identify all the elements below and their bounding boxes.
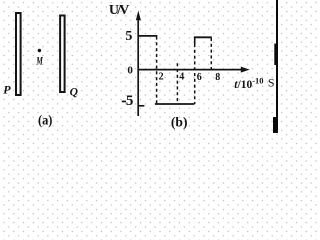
- svg-text:U/V: U/V: [109, 3, 129, 18]
- t axis arrowhead: [241, 67, 250, 73]
- plate Q (right capacitor plate): [60, 16, 65, 93]
- svg-text:0: 0: [127, 64, 133, 76]
- dashed transition at t=6: [194, 44, 196, 104]
- svg-text:5: 5: [125, 29, 132, 44]
- dashed transition at t=2: [156, 37, 158, 105]
- U axis arrowhead: [136, 11, 141, 21]
- scan artifact: right edge line: [276, 0, 278, 133]
- dashed transition at t=8: [210, 38, 212, 70]
- scan artifact: right edge blob bottom: [273, 117, 278, 133]
- t axis (horizontal): [138, 69, 243, 71]
- waveform bottom segment t=2..6 at U=-5: [155, 103, 194, 105]
- svg-text:S: S: [268, 75, 275, 89]
- svg-text:6: 6: [197, 72, 202, 83]
- svg-text:P: P: [3, 83, 11, 97]
- waveform top segment t=6..8 at U=+5: [194, 36, 212, 38]
- svg-text:5: 5: [126, 93, 133, 109]
- waveform top segment t=0..2 at U=+5: [138, 35, 158, 37]
- svg-text:4: 4: [179, 72, 184, 83]
- svg-text:8: 8: [215, 72, 220, 83]
- scan artifact: right edge blob middle: [274, 44, 278, 66]
- scale label -5 minus sign: [122, 101, 126, 103]
- svg-text:M: M: [36, 54, 43, 68]
- svg-text:(b): (b): [171, 115, 188, 130]
- svg-text:t/10-10: t/10-10: [234, 76, 263, 92]
- point M dot: [38, 49, 41, 52]
- svg-text:(a): (a): [38, 114, 53, 129]
- U axis (vertical): [137, 15, 139, 116]
- transition at t=6 solid upper part: [194, 37, 196, 44]
- svg-text:2: 2: [159, 72, 164, 83]
- svg-text:Q: Q: [70, 87, 78, 99]
- tick at -5 on U axis: [138, 105, 144, 107]
- plate P (left capacitor plate): [16, 13, 21, 95]
- dashed line at t=4: [176, 63, 178, 104]
